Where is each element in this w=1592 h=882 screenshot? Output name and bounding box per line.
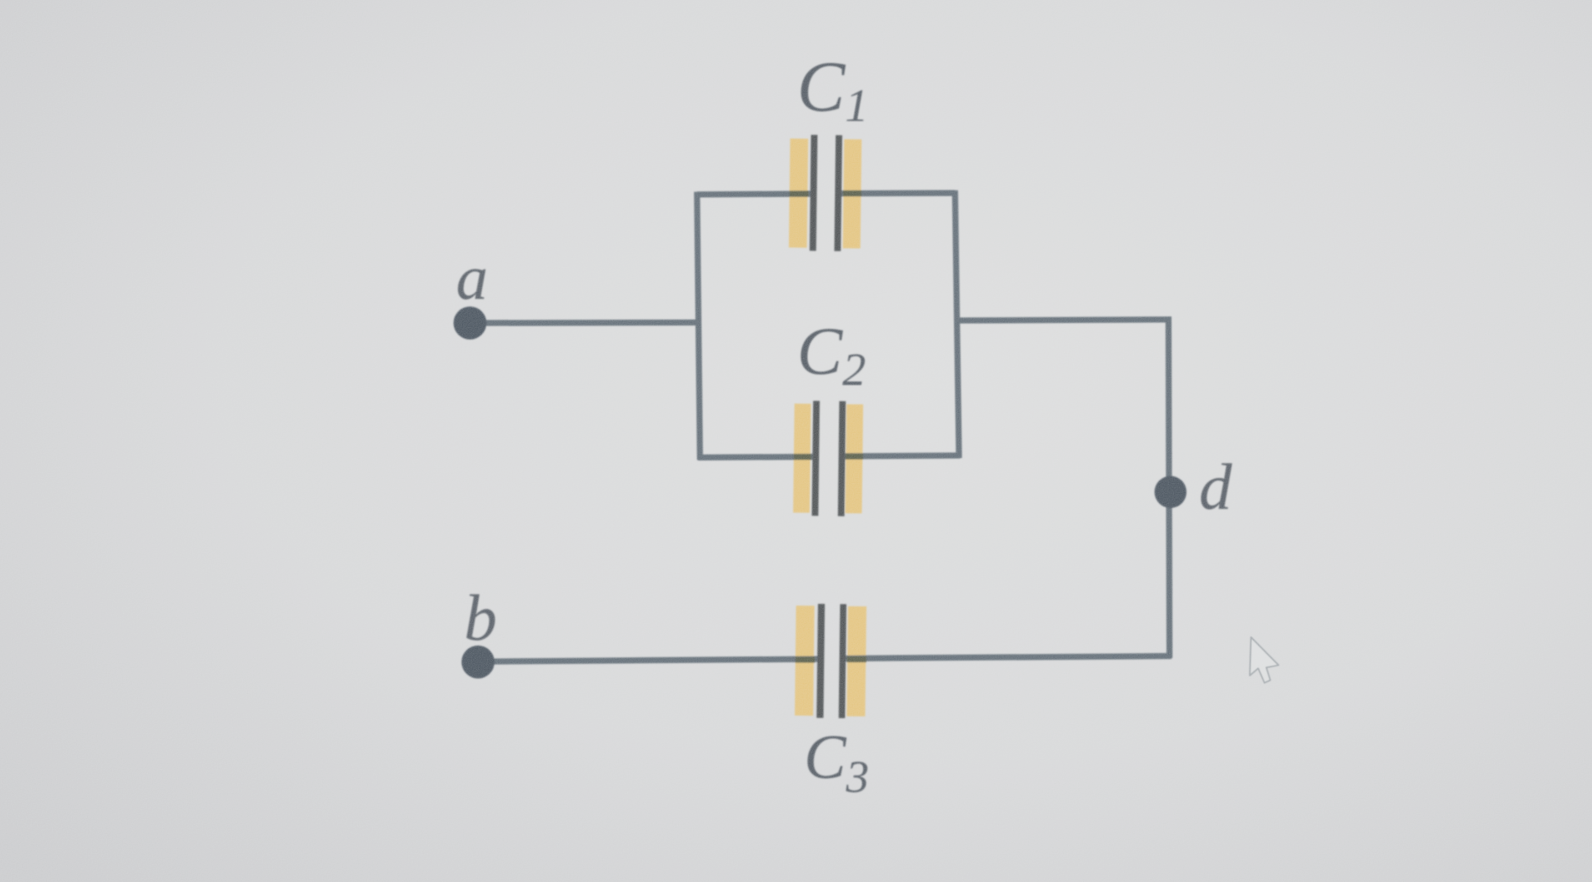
capacitor C1 highlight bars: [789, 139, 862, 249]
wire: box bottom edge left segment: [698, 454, 815, 461]
wire: box top edge right segment: [837, 190, 955, 197]
capacitor C3 highlight bars: [795, 606, 867, 717]
node d: [1155, 476, 1187, 508]
wire: node a to box left edge: [483, 320, 700, 327]
wire: box right edge: [955, 190, 959, 458]
wire: box top edge left segment: [697, 191, 813, 198]
node b: [462, 646, 495, 679]
capacitor C1 plates: [810, 135, 843, 251]
wire: node b to C3: [490, 659, 819, 662]
wire tint where highlighter crosses C1: [790, 190, 862, 196]
wire tint where highlighter crosses C2: [794, 454, 863, 460]
wire tint where highlighter crosses C3: [795, 656, 866, 662]
wire: C3 to bottom-right corner: [840, 656, 1172, 659]
mouse cursor: [1250, 637, 1279, 683]
wire: box left edge: [697, 192, 700, 460]
capacitor C3 plates: [817, 604, 847, 718]
capacitor C2 highlight bars: [793, 404, 863, 514]
wire: box right edge to top-right corner: [957, 320, 1172, 321]
wire: right vertical: [1169, 318, 1170, 658]
capacitor C2 plates: [812, 401, 846, 516]
node a: [454, 307, 487, 340]
wire: box bottom edge right segment: [841, 453, 960, 460]
